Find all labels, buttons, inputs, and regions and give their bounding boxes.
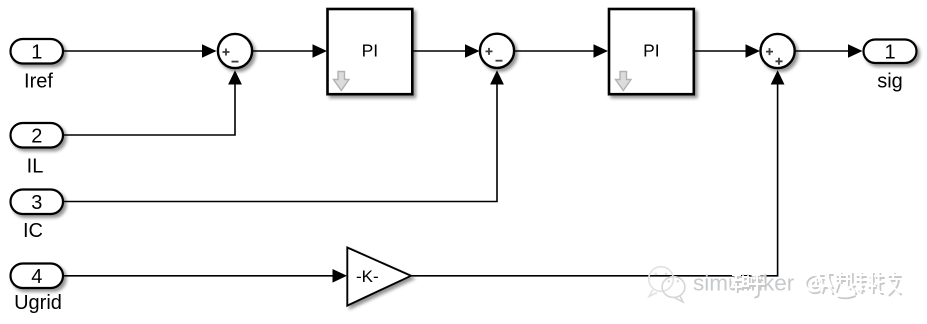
wire PI1 to Sum2: [413, 44, 480, 58]
wire PI2 to Sum3: [695, 44, 760, 58]
svg-text:1: 1: [884, 41, 895, 63]
svg-text:IC: IC: [23, 220, 43, 242]
wire Iref to Sum1: [64, 44, 217, 58]
PI block 2 (U2): [609, 9, 694, 94]
inport 3 IC: [11, 190, 64, 215]
inport 4 Ugrid: [11, 264, 64, 289]
gain block -K-: [347, 248, 411, 306]
inport 1 Iref: [11, 39, 64, 64]
sum block S3: [761, 34, 795, 68]
svg-text:2: 2: [31, 125, 42, 147]
wire IL to Sum1 (L-shaped): [64, 70, 242, 135]
sum block S2: [480, 34, 514, 68]
PI block 1 (U1): [328, 9, 413, 94]
wire IC to Sum2 (L-shaped): [64, 70, 504, 201]
svg-text:3: 3: [31, 192, 42, 214]
svg-text:4: 4: [31, 266, 42, 288]
wire Ugrid to Gain: [64, 269, 347, 283]
svg-text:PI: PI: [362, 41, 379, 61]
svg-text:Ugrid: Ugrid: [14, 292, 62, 314]
outport 1 sig: [864, 40, 917, 64]
svg-text:PI: PI: [643, 41, 660, 61]
svg-text:Iref: Iref: [24, 71, 53, 93]
svg-text:IL: IL: [27, 156, 44, 178]
wire Sum1 to PI1: [252, 44, 327, 58]
wire Sum3 to outport: [795, 44, 863, 58]
svg-text:1: 1: [31, 41, 42, 63]
wire Sum2 to PI2: [514, 44, 608, 58]
wire Gain to Sum3 (L-shaped): [412, 70, 785, 275]
sum block S1: [218, 34, 252, 68]
inport 2 IL: [11, 123, 64, 148]
svg-text:-K-: -K-: [356, 267, 379, 286]
svg-text:sig: sig: [877, 71, 903, 93]
watermark wechat icon: [649, 267, 685, 302]
